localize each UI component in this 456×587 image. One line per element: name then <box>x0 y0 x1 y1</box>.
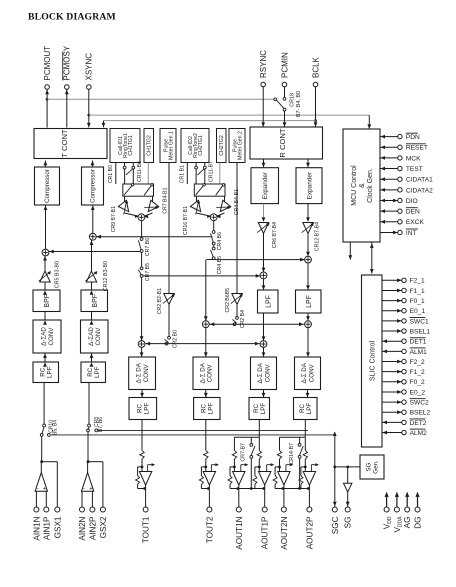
svg-text:Δ-ΣAD: Δ-ΣAD <box>41 327 48 346</box>
svg-text:Δ-ΣAD: Δ-ΣAD <box>88 327 95 346</box>
svg-text:AIN1P: AIN1P <box>42 516 51 540</box>
svg-text:RC: RC <box>200 404 207 413</box>
svg-text:BPF: BPF <box>44 294 51 308</box>
svg-text:TEST: TEST <box>406 166 423 173</box>
svg-text:DET1: DET1 <box>410 339 427 346</box>
svg-text:AOUT1P: AOUT1P <box>261 516 270 549</box>
svg-text:AIN1N: AIN1N <box>32 516 41 540</box>
svg-text:CH1TG1: CH1TG1 <box>128 135 134 156</box>
svg-text:DET2: DET2 <box>410 420 427 427</box>
svg-text:CR7-B7: CR7-B7 <box>241 443 247 462</box>
svg-text:PCMOSY: PCMOSY <box>63 45 72 80</box>
svg-text:PDN: PDN <box>406 134 420 141</box>
svg-text:LPF: LPF <box>265 295 272 308</box>
svg-text:-: - <box>83 486 85 492</box>
svg-text:MCU Control: MCU Control <box>351 165 358 206</box>
svg-text:CR11-B7: CR11-B7 <box>208 161 214 182</box>
svg-text:SG: SG <box>344 517 353 529</box>
svg-text:B5, B4: B5, B4 <box>52 420 58 435</box>
svg-text:EXCK: EXCK <box>406 219 425 226</box>
svg-text:Meter Gen.1: Meter Gen.1 <box>168 131 174 160</box>
svg-text:RC: RC <box>253 404 260 413</box>
svg-text:ALM2: ALM2 <box>410 430 428 437</box>
svg-text:CR7 B4-B1: CR7 B4-B1 <box>162 187 168 213</box>
svg-text:BLOCK DIAGRAM: BLOCK DIAGRAM <box>28 12 116 23</box>
svg-text:Δ-Σ DA: Δ-Σ DA <box>301 362 308 383</box>
svg-text:PCMOUT: PCMOUT <box>43 46 52 81</box>
svg-text:XSYNC: XSYNC <box>85 53 94 81</box>
svg-text:CR6 B7-B4: CR6 B7-B4 <box>272 222 278 248</box>
svg-text:-: - <box>37 486 39 492</box>
svg-text:ALM1: ALM1 <box>410 349 428 356</box>
svg-text:CH2TG1: CH2TG1 <box>198 135 204 156</box>
svg-text:CR4 B5: CR4 B5 <box>217 256 223 274</box>
svg-text:CR18: CR18 <box>289 93 295 107</box>
svg-text:CR2 B2-B1: CR2 B2-B1 <box>157 288 163 314</box>
svg-text:RC: RC <box>299 404 306 413</box>
svg-text:BSEL2: BSEL2 <box>410 410 431 417</box>
svg-text:F0_2: F0_2 <box>410 379 425 386</box>
svg-text:INT: INT <box>406 230 417 237</box>
svg-text:GSX2: GSX2 <box>99 516 108 538</box>
svg-text:E0_1: E0_1 <box>410 308 426 315</box>
svg-text:F2_2: F2_2 <box>410 359 425 366</box>
svg-text:RSYNC: RSYNC <box>259 50 268 78</box>
svg-text:DIO: DIO <box>406 198 418 205</box>
svg-text:Gen.: Gen. <box>373 460 380 474</box>
svg-text:LPF: LPF <box>208 403 215 415</box>
svg-text:BPF: BPF <box>92 294 99 308</box>
svg-text:CR12 B7-B4: CR12 B7-B4 <box>314 222 320 251</box>
svg-text:CONV: CONV <box>308 363 315 382</box>
svg-text:CR4 B6: CR4 B6 <box>217 232 223 250</box>
svg-text:LPF: LPF <box>94 366 101 378</box>
svg-text:CH1TG2: CH1TG2 <box>147 135 153 156</box>
svg-text:CR2 B6B5: CR2 B6B5 <box>225 288 231 313</box>
svg-text:B7, B6: B7, B6 <box>98 417 104 432</box>
svg-text:F2_1: F2_1 <box>410 278 425 285</box>
svg-text:DEN: DEN <box>406 209 420 216</box>
svg-text:Compressor: Compressor <box>44 169 51 203</box>
svg-text:Δ-Σ DA: Δ-Σ DA <box>199 362 206 383</box>
svg-text:SG: SG <box>366 462 373 471</box>
svg-text:CONV: CONV <box>264 363 271 382</box>
svg-text:DG: DG <box>413 517 422 529</box>
svg-text:CR1 B0: CR1 B0 <box>108 165 114 183</box>
svg-text:&: & <box>359 183 366 188</box>
svg-text:SWC1: SWC1 <box>410 318 429 325</box>
svg-text:Expander: Expander <box>306 171 313 199</box>
svg-text:RESET: RESET <box>406 145 428 152</box>
svg-text:E0_2: E0_2 <box>410 389 426 396</box>
svg-text:BSEL1: BSEL1 <box>410 328 431 335</box>
svg-text:CIDATA2: CIDATA2 <box>406 187 433 194</box>
svg-text:CR7 B5: CR7 B5 <box>145 263 151 281</box>
svg-text:AOUT2N: AOUT2N <box>280 516 289 549</box>
svg-text:RC: RC <box>39 367 46 376</box>
svg-text:TOUT1: TOUT1 <box>142 516 151 543</box>
svg-text:PCMIN: PCMIN <box>280 52 289 78</box>
svg-text:MCK: MCK <box>406 155 421 162</box>
svg-text:F1_2: F1_2 <box>410 369 425 376</box>
svg-text:AG: AG <box>403 517 412 529</box>
svg-text:CONV: CONV <box>207 363 214 382</box>
svg-text:CR7 B6: CR7 B6 <box>145 238 151 256</box>
svg-text:F0_1: F0_1 <box>410 298 425 305</box>
svg-text:GSX1: GSX1 <box>53 516 62 538</box>
svg-text:CR2 B4: CR2 B4 <box>240 310 246 328</box>
svg-text:SLIC Control: SLIC Control <box>369 341 376 382</box>
svg-text:B7- B4, B0: B7- B4, B0 <box>296 91 302 117</box>
svg-text:CONV: CONV <box>143 363 150 382</box>
svg-text:CR14-B7: CR14-B7 <box>289 443 295 464</box>
svg-text:LPF: LPF <box>144 403 151 415</box>
svg-text:AOUT1N: AOUT1N <box>235 516 244 549</box>
svg-text:LPF: LPF <box>306 403 313 415</box>
svg-text:CR2 B0: CR2 B0 <box>172 330 178 348</box>
svg-text:T CONT: T CONT <box>60 129 69 157</box>
svg-text:Δ-Σ DA: Δ-Σ DA <box>257 362 264 383</box>
svg-text:Compressor: Compressor <box>90 169 97 203</box>
svg-text:LPF: LPF <box>47 366 54 378</box>
svg-text:CIDATA1: CIDATA1 <box>406 177 433 184</box>
svg-text:Expander: Expander <box>262 171 269 199</box>
svg-text:CR16 B7-B1: CR16 B7-B1 <box>183 206 189 235</box>
svg-text:Clock Gen.: Clock Gen. <box>367 168 374 203</box>
svg-text:BCLK: BCLK <box>311 56 320 78</box>
svg-text:RC: RC <box>136 404 143 413</box>
svg-text:AIN2P: AIN2P <box>88 516 97 540</box>
svg-text:CR12 B3-B0: CR12 B3-B0 <box>103 261 109 291</box>
svg-text:Meter Gen.2: Meter Gen.2 <box>237 131 243 160</box>
svg-text:CR5 B3-B0: CR5 B3-B0 <box>55 261 61 288</box>
svg-text:TOUT2: TOUT2 <box>205 516 214 543</box>
svg-text:CONV: CONV <box>95 327 102 346</box>
svg-text:Δ-Σ DA: Δ-Σ DA <box>136 362 143 383</box>
svg-text:AOUT2P: AOUT2P <box>305 516 314 549</box>
svg-text:AIN2N: AIN2N <box>78 516 87 540</box>
svg-text:CONV: CONV <box>48 327 55 346</box>
svg-text:SGC: SGC <box>331 516 340 534</box>
svg-text:CH2TG2: CH2TG2 <box>219 135 225 156</box>
svg-text:SWC2: SWC2 <box>410 400 429 407</box>
svg-text:LPF: LPF <box>306 295 313 308</box>
svg-text:R CONT: R CONT <box>278 128 287 157</box>
svg-text:CR9 B7-B1: CR9 B7-B1 <box>111 206 117 232</box>
svg-text:RC: RC <box>87 367 94 376</box>
svg-text:CR11-B6: CR11-B6 <box>137 161 143 182</box>
svg-text:F1_1: F1_1 <box>410 288 425 295</box>
svg-text:CR1 B1: CR1 B1 <box>179 165 185 183</box>
svg-text:LPF: LPF <box>260 403 267 415</box>
